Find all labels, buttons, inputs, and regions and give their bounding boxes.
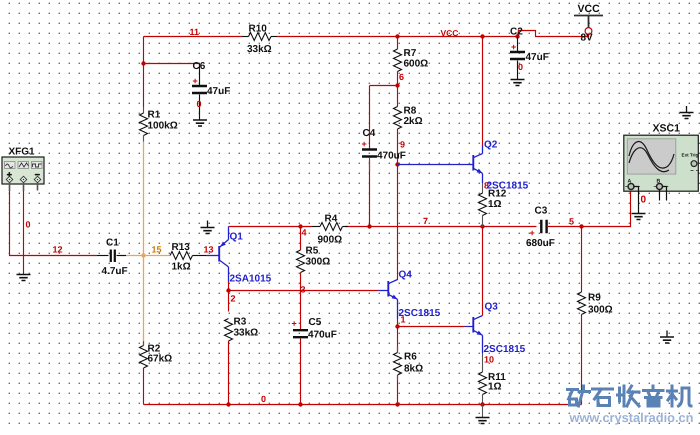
ground mid right (floating)	[666, 331, 668, 338]
svg-text:R6: R6	[404, 352, 417, 363]
junction Q2 base	[395, 162, 399, 166]
wire Q3 emitter to R11	[482, 353, 484, 372]
wire R11 to rail and ground	[482, 395, 484, 405]
transistor Q3 2SC1815 (NPN)	[472, 317, 474, 333]
svg-text:+: +	[511, 42, 516, 52]
junction R12/Q3	[480, 224, 484, 228]
resistor R4	[312, 226, 320, 228]
wire XFG1 common terminal to ground (net 0)	[23, 190, 25, 274]
svg-text:0: 0	[197, 99, 202, 109]
ground top right (floating)	[686, 106, 688, 113]
svg-text:33kΩ: 33kΩ	[247, 44, 272, 55]
instrument XFG1 function generator	[2, 157, 44, 184]
scope terminal B	[657, 184, 663, 190]
svg-text:C4: C4	[363, 128, 376, 139]
wire XFG1 plus terminal down-right to C1 (net 12)	[10, 190, 98, 256]
wire net6 R7/R8 and C4 branch	[397, 37, 399, 50]
svg-text:0: 0	[261, 394, 266, 404]
resistor R10	[242, 36, 249, 38]
svg-text:Q3: Q3	[485, 302, 499, 313]
svg-text:Q4: Q4	[399, 270, 413, 281]
svg-text:+: +	[193, 76, 198, 86]
svg-text:VCC: VCC	[578, 3, 601, 15]
svg-text:R13: R13	[172, 242, 191, 253]
svg-text:300Ω: 300Ω	[306, 257, 331, 268]
svg-text:900Ω: 900Ω	[318, 235, 343, 246]
svg-text:+: +	[362, 139, 367, 149]
capacitor C1	[97, 255, 109, 257]
svg-text:+: +	[292, 319, 297, 329]
wire net11 vertical (rail to R1)	[143, 37, 145, 108]
resistor R11	[479, 372, 487, 395]
svg-text:R10: R10	[249, 24, 268, 35]
svg-text:4: 4	[302, 228, 307, 238]
wire VCC top rail	[144, 36, 243, 38]
watermark site name	[568, 386, 692, 406]
svg-text:R5: R5	[306, 246, 319, 257]
junction R9 top	[579, 224, 583, 228]
wire net2 Q1 collector row	[228, 281, 230, 312]
svg-text:Ext Trig: Ext Trig	[682, 153, 699, 158]
scope waveform	[629, 142, 674, 169]
svg-text:9: 9	[400, 140, 405, 150]
scope B stubs	[659, 190, 661, 201]
junction R7 top	[395, 34, 399, 38]
svg-text:0: 0	[26, 220, 31, 230]
transistor Q1 2SA1015 (PNP)	[206, 255, 219, 257]
svg-text:300Ω: 300Ω	[588, 305, 613, 316]
svg-text:6: 6	[399, 72, 404, 82]
svg-text:8kΩ: 8kΩ	[404, 364, 423, 375]
svg-text:15: 15	[152, 245, 162, 255]
wire R5 top lead	[300, 227, 302, 251]
svg-text:www.crystalradio.cn: www.crystalradio.cn	[569, 410, 694, 425]
svg-text:R7: R7	[404, 48, 417, 59]
wire Q3 collector to rail	[482, 227, 484, 316]
svg-text:2: 2	[231, 294, 236, 304]
svg-text:100kΩ: 100kΩ	[148, 121, 178, 132]
wire C5 bottom to rail	[300, 339, 302, 405]
svg-text:XFG1: XFG1	[9, 147, 36, 158]
wire R6 leads	[397, 327, 399, 353]
svg-text:67kΩ: 67kΩ	[148, 354, 173, 365]
svg-text:7: 7	[423, 216, 428, 226]
svg-text:47uF: 47uF	[526, 52, 549, 63]
svg-text:R9: R9	[588, 293, 601, 304]
wire net15 vertical R1-R2 (orange net)	[143, 142, 145, 346]
wire R3 to bottom rail	[228, 341, 230, 405]
svg-text:Q2: Q2	[484, 140, 498, 151]
svg-text:3: 3	[301, 285, 306, 295]
wire R2 bottom to ground rail	[143, 368, 145, 405]
svg-text:C2: C2	[510, 27, 523, 38]
scope A ground hookup	[634, 187, 639, 214]
svg-text:4.7uF: 4.7uF	[102, 266, 128, 277]
svg-text:1Ω: 1Ω	[488, 199, 502, 210]
svg-text:600Ω: 600Ω	[404, 59, 429, 70]
resistor R12	[479, 193, 487, 216]
wire C4 bottom to output rail	[369, 161, 371, 227]
svg-text:10: 10	[484, 355, 494, 365]
ground at XFG1 common	[17, 275, 31, 281]
capacitor C2	[515, 34, 519, 38]
wire R12 to rail	[482, 216, 484, 228]
svg-text:0: 0	[641, 195, 647, 206]
svg-text:1Ω: 1Ω	[488, 382, 502, 393]
svg-text:470uF: 470uF	[308, 330, 337, 341]
resistor R8	[394, 107, 402, 130]
ground below R11	[476, 418, 490, 424]
svg-text:2SC1815: 2SC1815	[399, 308, 441, 319]
wire net9 R8 bottom to Q4 collector	[397, 129, 399, 280]
wire scope A drop	[630, 190, 632, 227]
wire Q2 emitter to R12	[482, 183, 484, 194]
capacitor C5	[293, 330, 308, 337]
transistor Q2 2SC1815 (NPN)	[468, 164, 473, 166]
svg-text:2kΩ: 2kΩ	[404, 116, 423, 127]
resistor R2	[143, 341, 145, 346]
wire R9 vertical	[581, 227, 583, 293]
svg-text:VCC: VCC	[441, 28, 459, 38]
capacitor C3	[541, 220, 546, 234]
ground near Q1 emitter	[207, 221, 209, 228]
svg-text:680uF: 680uF	[526, 238, 555, 249]
svg-text:33kΩ: 33kΩ	[234, 328, 259, 339]
svg-text:C5: C5	[309, 317, 322, 328]
svg-text:XSC1: XSC1	[653, 123, 681, 135]
svg-text:C1: C1	[106, 238, 119, 249]
XFG1 terminals	[6, 176, 13, 183]
svg-text:R1: R1	[148, 110, 161, 121]
resistor R5	[297, 250, 305, 273]
svg-text:R4: R4	[325, 214, 338, 225]
junction node4 R5	[298, 224, 302, 228]
wire output rail net 7	[229, 226, 313, 228]
junction net11/C6	[141, 61, 145, 65]
svg-text:Q1: Q1	[230, 232, 244, 243]
svg-text:0: 0	[518, 62, 523, 72]
junction net15	[141, 253, 145, 257]
transistor Q4 2SC1815 (NPN)	[378, 290, 388, 292]
svg-text:13: 13	[204, 245, 214, 255]
svg-text:8V: 8V	[581, 33, 594, 44]
wire bottom ground rail (net 0)	[144, 404, 582, 406]
svg-text:2SC1815: 2SC1815	[484, 344, 526, 355]
scope terminal A	[628, 184, 634, 190]
capacitor C6	[199, 64, 201, 86]
svg-text:1kΩ: 1kΩ	[172, 262, 191, 273]
wire VCC rail to supply jog	[518, 31, 589, 37]
resistor R9	[578, 292, 586, 315]
svg-text:C6: C6	[193, 61, 206, 72]
svg-text:+: +	[530, 228, 535, 238]
wire Q2 base lead	[398, 164, 469, 166]
resistor R7	[394, 49, 402, 72]
svg-text:R8: R8	[404, 106, 417, 117]
svg-text:R3: R3	[234, 317, 247, 328]
wire net15 horizontal C1 to R13	[120, 255, 170, 257]
resistor R13	[170, 252, 193, 260]
svg-text:5: 5	[569, 217, 574, 227]
svg-text:12: 12	[53, 245, 63, 255]
ground at C2	[511, 80, 525, 86]
svg-text:11: 11	[190, 27, 200, 37]
wire net3 R5 to C5	[300, 273, 302, 331]
XFG1 lead stubs	[9, 184, 11, 191]
svg-text:470uF: 470uF	[377, 151, 406, 162]
wire net1 Q4 emitter / Q3 base / R6	[397, 319, 399, 327]
svg-text:2SC1815: 2SC1815	[487, 181, 529, 192]
power VCC supply symbol 8V	[574, 16, 603, 28]
resistor R3	[225, 319, 233, 342]
wire C6 tap	[144, 63, 200, 65]
capacitor C4	[362, 150, 377, 157]
instrument XSC1 oscilloscope	[624, 135, 699, 191]
resistor R1	[143, 107, 145, 113]
junction C4 bottom	[367, 224, 371, 228]
svg-text:47uF: 47uF	[207, 86, 230, 97]
wire Q2 collector drop	[482, 37, 484, 146]
svg-text:2SA1015: 2SA1015	[230, 274, 272, 285]
svg-text:C3: C3	[535, 206, 548, 217]
ground at C6	[193, 120, 207, 126]
resistor R6	[397, 346, 399, 353]
